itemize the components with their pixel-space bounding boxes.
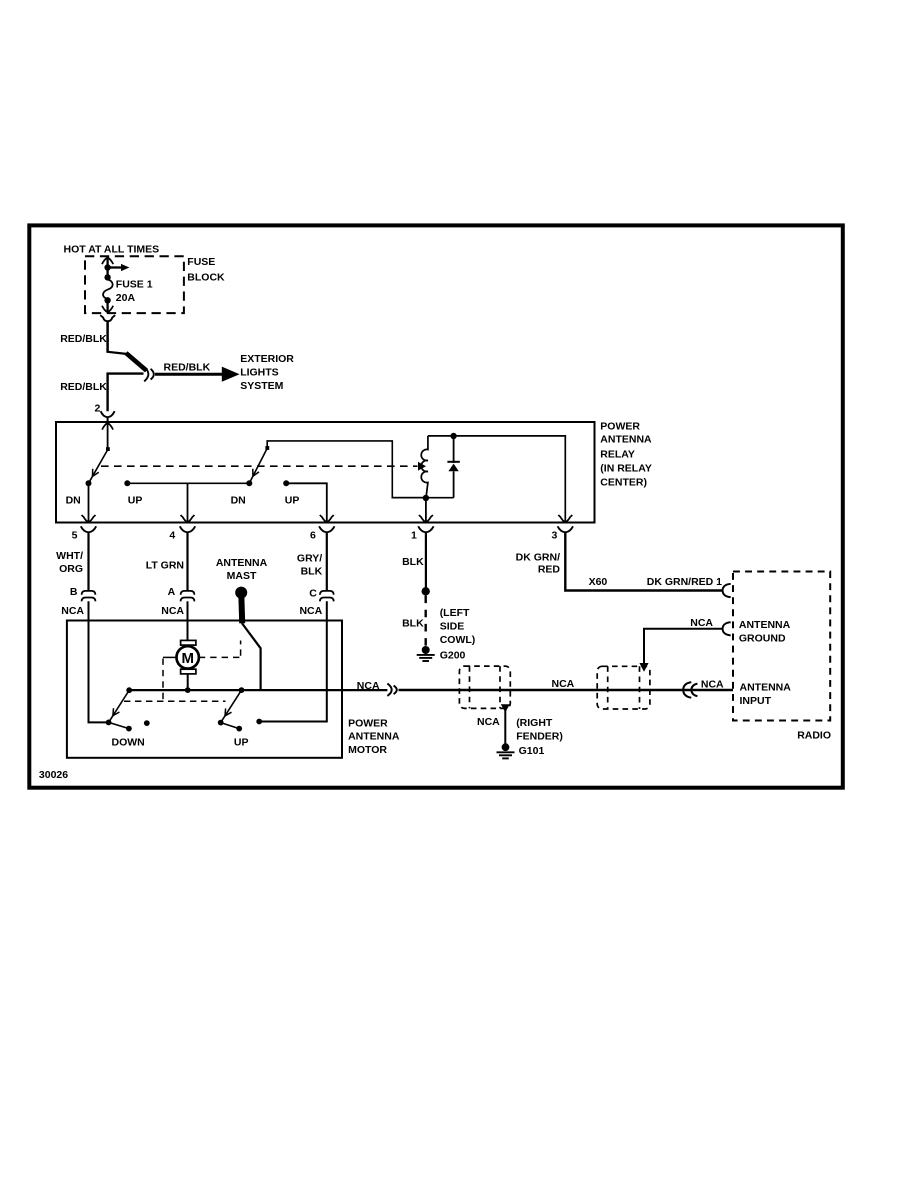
label WHT/ORG (56, 550, 83, 575)
junction dot below fuse (104, 297, 110, 303)
switch mechanical dashed link in motor (124, 700, 226, 702)
label LT GRN (146, 560, 184, 572)
relay box (56, 422, 595, 523)
label NCA on ground wire (690, 617, 713, 629)
label UP (234, 737, 249, 749)
svg-text:RED/BLK: RED/BLK (164, 361, 211, 373)
diagram id label 30026 (39, 769, 68, 781)
svg-text:5: 5 (72, 530, 78, 542)
splice arcs on NCA wire (387, 684, 396, 696)
svg-text:FUSE: FUSE (187, 256, 215, 268)
labels NCA under connectors (61, 605, 322, 617)
wire arrow down at fuse block bottom (102, 300, 113, 312)
junction dot on BLK wire (422, 587, 430, 595)
svg-text:UP: UP (128, 495, 143, 507)
svg-text:SYSTEM: SYSTEM (240, 380, 283, 392)
svg-text:RED/BLK: RED/BLK (60, 333, 107, 345)
in-line connector box C201 dashed (597, 666, 650, 709)
svg-text:GROUND: GROUND (739, 633, 786, 645)
in-line connector A (181, 591, 195, 602)
connector cup below fuse block (100, 315, 115, 321)
svg-text:MAST: MAST (227, 570, 257, 582)
label BLK upper (402, 556, 424, 568)
power antenna motor box (67, 621, 342, 758)
motor UP switch blade (218, 690, 242, 731)
in-line connector box C100 dashed (459, 666, 510, 708)
svg-text:ORG: ORG (59, 563, 83, 575)
svg-text:HOT AT ALL TIMES: HOT AT ALL TIMES (64, 243, 160, 255)
label ANTENNA GROUND (739, 619, 791, 644)
svg-text:BLOCK: BLOCK (187, 272, 225, 284)
svg-text:NCA: NCA (477, 716, 500, 728)
svg-text:NCA: NCA (690, 617, 713, 629)
svg-text:6: 6 (310, 530, 316, 542)
wire A to motor (187, 601, 189, 640)
wire jog and thick diagonal to splice (108, 352, 147, 371)
svg-text:(IN RELAY: (IN RELAY (600, 463, 652, 475)
pin 1 connector flares (418, 526, 433, 532)
antenna ground wire from radio (639, 629, 722, 672)
label EXTERIOR LIGHTS SYSTEM (240, 353, 294, 392)
svg-text:C: C (309, 587, 317, 599)
relay mechanical dashed link (101, 462, 426, 471)
in-line connector B (82, 591, 96, 602)
wire RED/BLK lower to relay pin 2 (108, 374, 144, 412)
svg-text:BLK: BLK (402, 617, 424, 629)
svg-text:POWER: POWER (600, 420, 640, 432)
svg-text:NCA: NCA (61, 605, 84, 617)
connector ground tap arrow to G101 (501, 704, 510, 743)
relay coil (421, 436, 428, 498)
svg-text:BLK: BLK (301, 566, 323, 578)
label DK GRN/RED (516, 552, 561, 576)
label POWER ANTENNA RELAY (600, 420, 652, 488)
radio pin connector arc for antenna ground (723, 622, 731, 635)
svg-text:RED: RED (538, 564, 561, 576)
wire UP line to pin 4 (187, 483, 189, 521)
relay pin exit arrows at box bottom (82, 515, 573, 522)
svg-text:RELAY: RELAY (600, 448, 635, 460)
wire WHT/ORG pin5 to connector B (87, 533, 89, 591)
label DK GRN/RED 1 (647, 576, 722, 588)
pin 6 connector flares (319, 526, 334, 532)
label BLK lower (402, 617, 424, 629)
label A (168, 586, 176, 598)
svg-text:EXTERIOR: EXTERIOR (240, 353, 294, 365)
motor mechanical dashed link right to mast (199, 641, 241, 658)
svg-text:NCA: NCA (701, 679, 724, 691)
relay labels DN UP DN UP (66, 495, 300, 507)
svg-text:ANTENNA: ANTENNA (740, 681, 792, 693)
svg-text:BLK: BLK (402, 556, 424, 568)
svg-text:B: B (70, 586, 78, 598)
svg-text:RADIO: RADIO (797, 730, 831, 742)
svg-text:ANTENNA: ANTENNA (739, 619, 791, 631)
svg-text:NCA: NCA (552, 678, 575, 690)
motor DOWN switch blade (106, 690, 132, 731)
wire C inside motor box to UP contact (259, 601, 327, 721)
svg-text:3: 3 (551, 530, 557, 542)
relay switch 1 blade (89, 447, 110, 483)
label DOWN (112, 737, 145, 749)
motor DOWN spare contact dot (144, 720, 150, 726)
relay pin 2 entry arrow up inside box (102, 423, 113, 449)
svg-text:ANTENNA: ANTENNA (348, 731, 400, 743)
svg-text:UP: UP (285, 495, 300, 507)
svg-text:20A: 20A (116, 292, 136, 304)
label NCA at G101 (477, 716, 500, 728)
antenna mast terminal dot (235, 587, 247, 599)
label ANTENNA MAST (216, 557, 268, 582)
radio dashed box (733, 572, 830, 721)
svg-text:1: 1 (411, 530, 417, 542)
double connector arcs at antenna input (683, 682, 697, 698)
svg-text:G200: G200 (440, 650, 466, 662)
junction dots on rail (126, 687, 244, 693)
node HOT AT ALL TIMES (64, 243, 160, 255)
relay switch 1 pivot dot DN contact (86, 480, 92, 486)
wire RED/BLK vertical from fuse (106, 321, 109, 353)
svg-text:ANTENNA: ANTENNA (600, 434, 652, 446)
label NCA mid wire (552, 678, 575, 690)
wire coil bottom to pin 1 (425, 498, 427, 522)
label X60 (589, 576, 608, 588)
pin 2 connector cup (101, 411, 115, 422)
label RED/BLK upper (60, 333, 107, 345)
svg-text:SIDE: SIDE (440, 621, 465, 633)
svg-text:X60: X60 (589, 576, 608, 588)
wire BLK pin1 down (425, 533, 427, 589)
junction dot in fuse block (104, 264, 110, 270)
motor UP contact dot (256, 719, 262, 725)
label C (309, 587, 317, 599)
svg-text:ANTENNA: ANTENNA (216, 557, 268, 569)
branch wire with right arrow in fuse block (108, 264, 130, 271)
motor mechanical dashed link left (163, 657, 177, 700)
fuse block dashed box (85, 256, 184, 313)
svg-text:DN: DN (231, 495, 246, 507)
radio pin connector arc for DK GRN/RED (723, 584, 731, 597)
svg-text:INPUT: INPUT (740, 695, 772, 707)
wire NCA to radio (399, 689, 734, 692)
svg-text:POWER: POWER (348, 717, 388, 729)
svg-text:(LEFT: (LEFT (440, 607, 470, 619)
pin 5 connector flares (81, 526, 96, 532)
svg-text:A: A (168, 586, 176, 598)
label RIGHT FENDER G101 (516, 717, 563, 757)
dashed BLK wire to G200 (425, 596, 427, 646)
wire LT GRN pin4 to connector A (186, 533, 188, 591)
ground G101 symbol (497, 743, 515, 758)
svg-text:LT GRN: LT GRN (146, 560, 184, 572)
svg-text:G101: G101 (519, 745, 545, 757)
pin 2 label (95, 403, 101, 415)
svg-text:M: M (181, 650, 194, 667)
wire DN contact to pin 5 (88, 483, 90, 521)
pin 4 connector flares (180, 526, 195, 532)
svg-text:RED/BLK: RED/BLK (60, 381, 107, 393)
svg-text:GRY/: GRY/ (297, 553, 322, 565)
motor M1 (177, 640, 199, 674)
svg-text:COWL): COWL) (440, 634, 476, 646)
relay switch 2 UP contact and wire to pin 6 (283, 480, 327, 521)
pin number labels 5 4 6 1 3 (72, 530, 558, 542)
label B (70, 586, 78, 598)
svg-text:(RIGHT: (RIGHT (516, 717, 553, 729)
relay coil top line to diode and pin 3 drop (428, 436, 565, 522)
svg-text:4: 4 (169, 530, 175, 542)
svg-text:WHT/: WHT/ (56, 550, 83, 562)
label NCA at antenna input (701, 679, 724, 691)
fuse label FUSE 1 20A (116, 278, 153, 304)
svg-text:NCA: NCA (299, 605, 322, 617)
mast linkage diagonal and drop (242, 623, 261, 690)
svg-text:2: 2 (95, 403, 101, 415)
relay coil bottom line (392, 497, 453, 499)
fuse F1 element curve (103, 280, 113, 299)
svg-text:FUSE 1: FUSE 1 (116, 278, 153, 290)
in-line connector C (320, 591, 334, 602)
wire switch 2 blade to coil bottom (267, 441, 426, 498)
junction dot at diode top (450, 433, 456, 439)
svg-text:DK GRN/: DK GRN/ (516, 552, 560, 564)
label GRY/BLK (297, 553, 323, 578)
svg-text:FENDER): FENDER) (516, 731, 563, 743)
splice symbol S200 arcs (144, 367, 154, 382)
wire DK GRN/RED pin3 to radio X60 (565, 533, 722, 591)
label LEFT SIDE COWL G200 (440, 607, 476, 662)
label RADIO (797, 730, 831, 742)
svg-text:MOTOR: MOTOR (348, 744, 387, 756)
common rail wire NCA (129, 689, 387, 691)
svg-text:DK GRN/RED 1: DK GRN/RED 1 (647, 576, 722, 588)
label ANTENNA INPUT (740, 681, 792, 707)
label POWER ANTENNA MOTOR (348, 717, 400, 756)
label NCA at motor output (357, 680, 380, 692)
border frame of diagram (29, 225, 843, 787)
svg-text:DOWN: DOWN (112, 737, 145, 749)
label RED/BLK at arrow (164, 361, 211, 373)
svg-text:DN: DN (66, 495, 81, 507)
svg-text:LIGHTS: LIGHTS (240, 367, 279, 379)
diode CR1 (447, 436, 459, 498)
wire B inside motor box to DOWN pivot (89, 601, 109, 722)
wire feed arrow up at fuse block top (102, 257, 113, 267)
antenna mast thick rod (238, 594, 245, 623)
svg-text:NCA: NCA (161, 605, 184, 617)
wire RED/BLK to exterior lights with arrow (155, 367, 240, 382)
junction dot at coil bottom (423, 495, 429, 501)
wire GRY/BLK pin6 to connector C (326, 533, 328, 591)
label RED/BLK lower (60, 381, 107, 393)
wire motor bottom to common rail (187, 674, 189, 690)
relay UP contact dot and wire to switch 2 pivot (124, 480, 249, 486)
fuse block label (187, 256, 225, 284)
pin 3 connector flares (558, 526, 573, 532)
ground G200 symbol (417, 646, 435, 661)
svg-text:CENTER): CENTER) (600, 477, 647, 489)
svg-text:NCA: NCA (357, 680, 380, 692)
svg-text:30026: 30026 (39, 769, 68, 781)
junction dot above fuse (104, 268, 110, 281)
svg-text:UP: UP (234, 737, 249, 749)
relay switch 2 blade (246, 446, 269, 486)
